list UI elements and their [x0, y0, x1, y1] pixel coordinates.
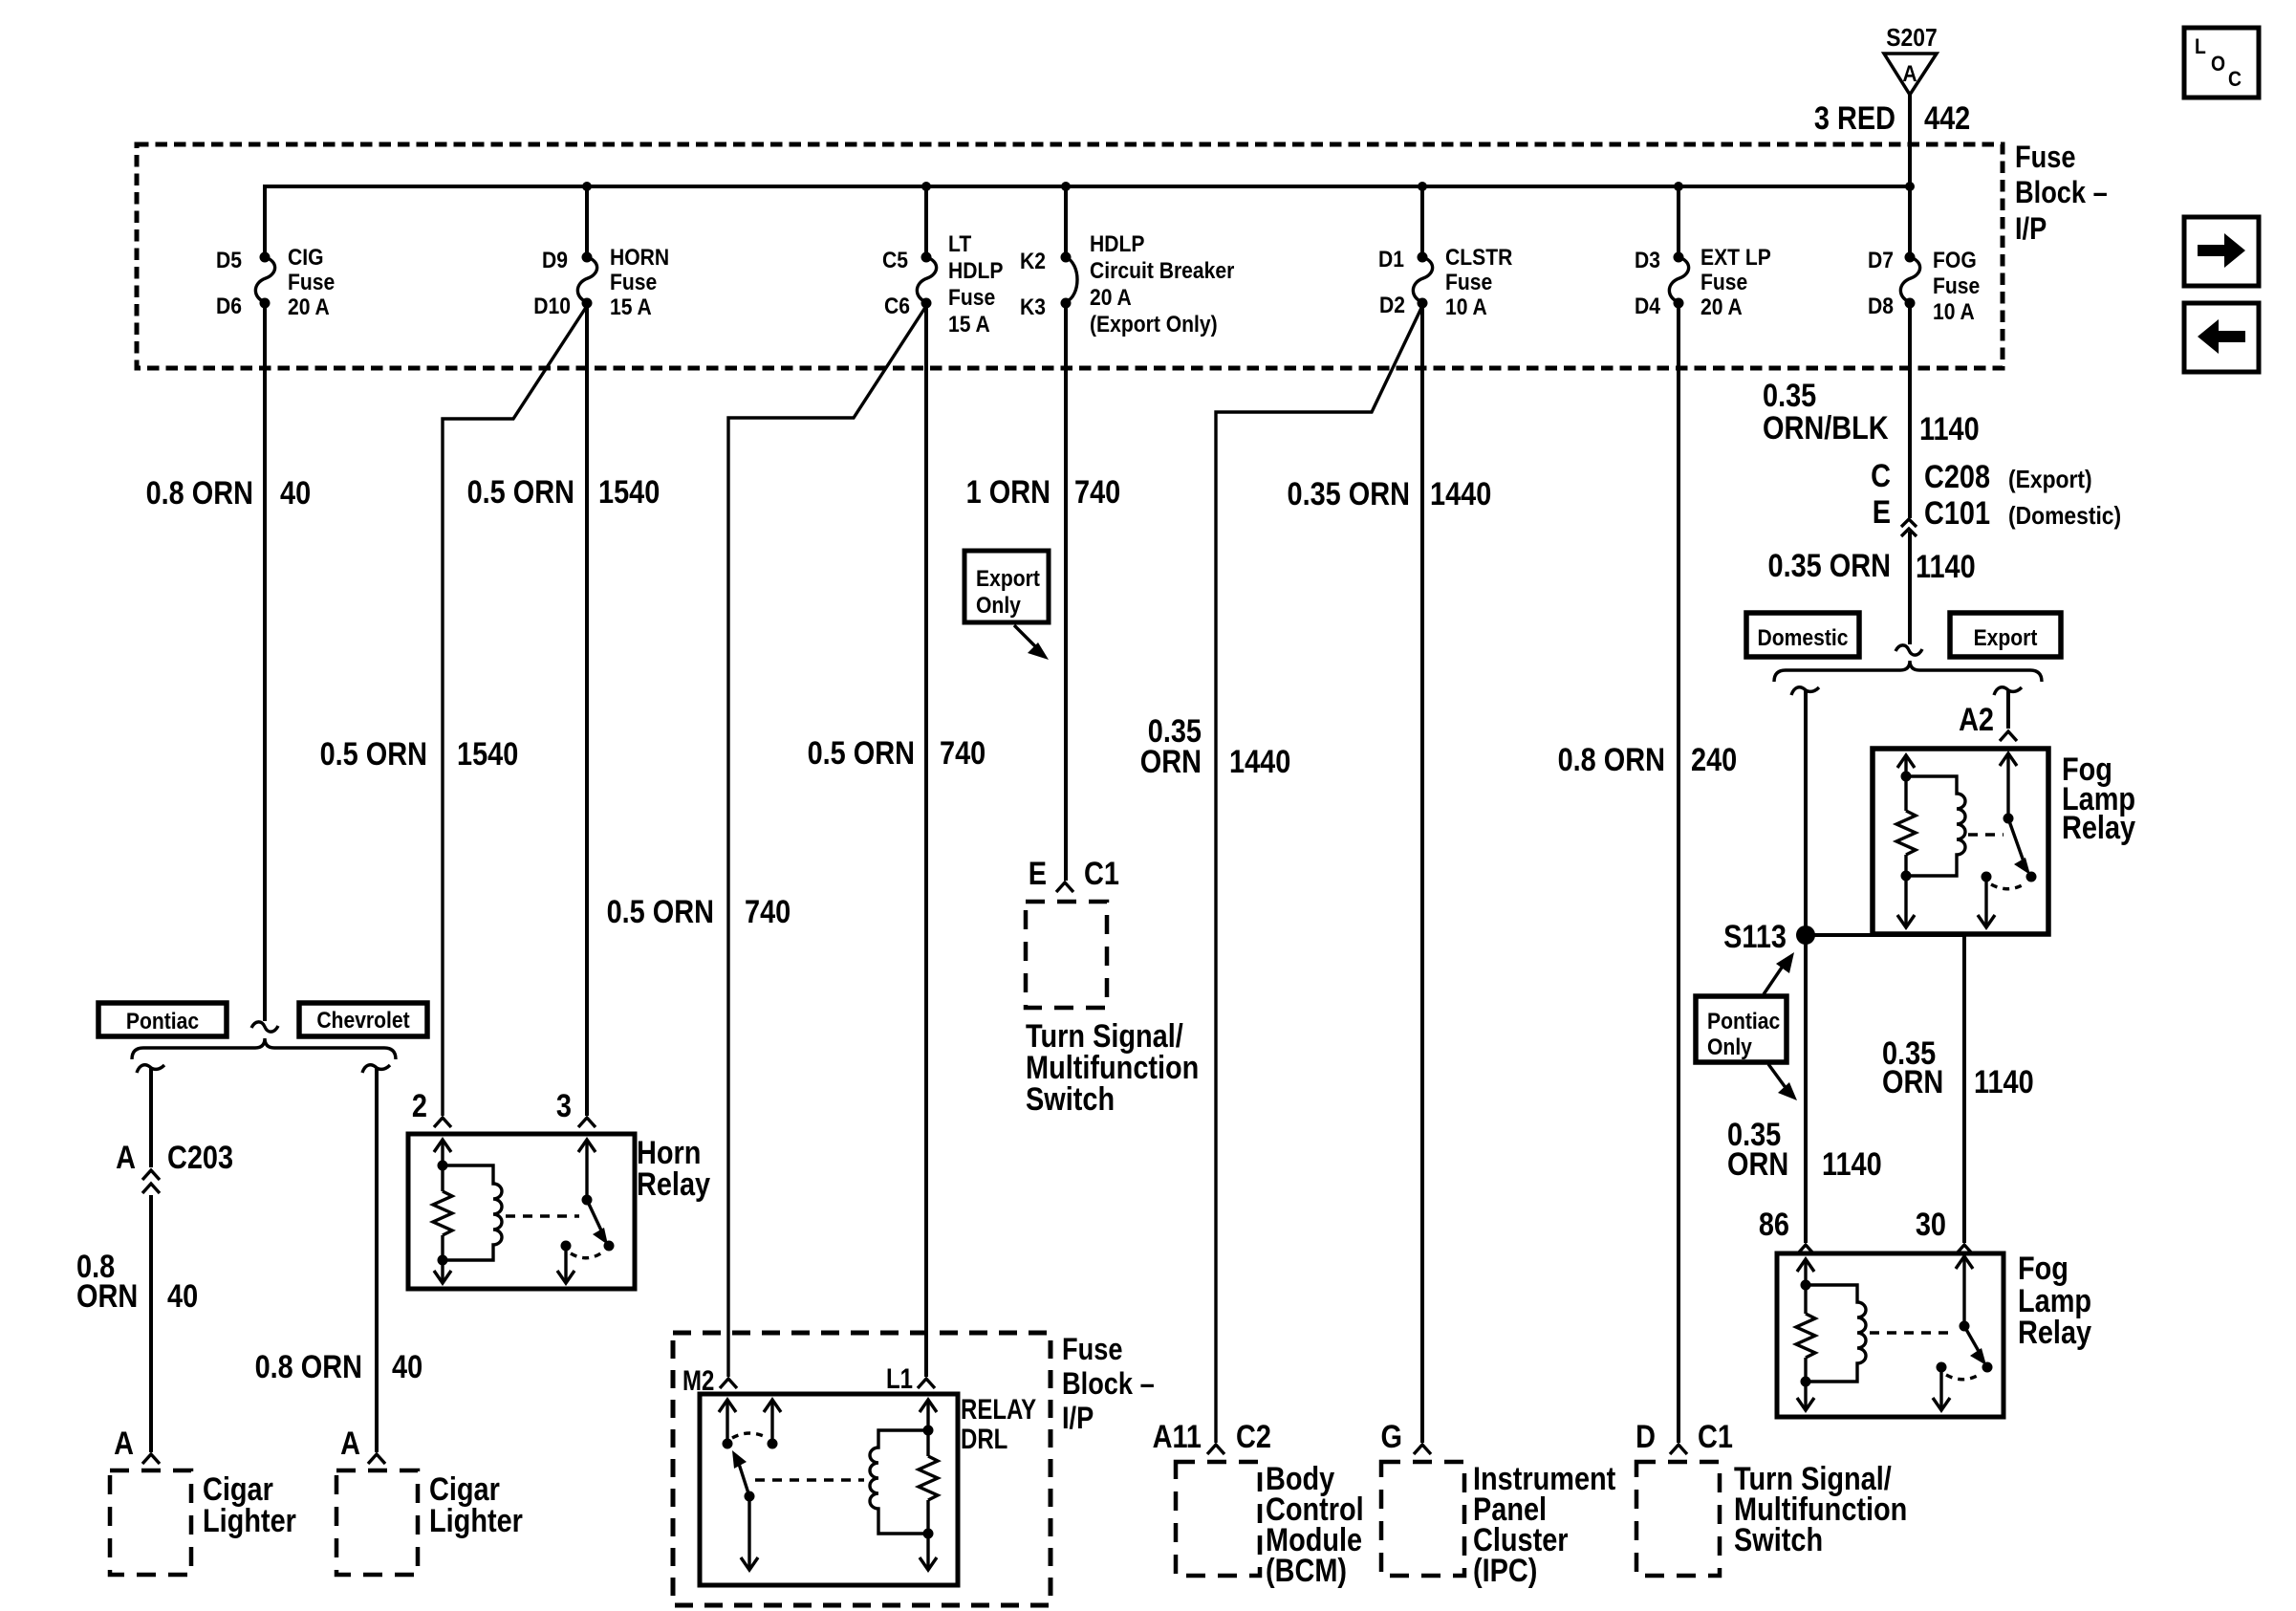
svg-text:Block –: Block – — [2015, 176, 2108, 210]
svg-text:ORN: ORN — [76, 1277, 138, 1315]
svg-text:Fuse: Fuse — [1445, 270, 1492, 295]
fuse LT HDLP 15A C5/C6 — [882, 231, 1003, 337]
svg-text:Export: Export — [976, 566, 1040, 592]
svg-text:L: L — [2195, 35, 2206, 58]
svg-text:Export: Export — [1974, 625, 2038, 651]
svg-text:10 A: 10 A — [1445, 294, 1487, 320]
svg-text:D3: D3 — [1635, 248, 1660, 273]
svg-text:1140: 1140 — [1822, 1145, 1882, 1183]
svg-text:Pontiac: Pontiac — [126, 1009, 199, 1034]
svg-text:0.35 ORN: 0.35 ORN — [1288, 475, 1410, 512]
svg-text:442: 442 — [1924, 99, 1970, 137]
svg-text:I/P: I/P — [2015, 212, 2047, 247]
callout box Domestic — [1746, 613, 1859, 657]
terminal A2 of fog lamp relay — [1959, 701, 2017, 741]
wire 0.5 ORN 1540 from HORN fuse to horn relay 3 — [585, 303, 589, 1116]
svg-text:ORN: ORN — [1882, 1063, 1943, 1100]
wire Chevrolet branch 0.8 ORN 40 — [375, 1068, 379, 1452]
svg-text:Relay: Relay — [2062, 809, 2136, 846]
arrow from Pontiac Only up to S113 — [1764, 952, 1794, 994]
wire stub to LT HDLP fuse — [924, 186, 928, 254]
fuse HORN 15A D9/D10 — [533, 245, 669, 320]
relay: Horn Relay — [408, 1134, 711, 1289]
svg-text:C208: C208 — [1924, 458, 1990, 495]
brace under Domestic/Export split — [1774, 661, 2042, 682]
terminal 86 of fog lamp relay — [1759, 1206, 1814, 1254]
terminal A of cigar lighter (Chevrolet) — [340, 1425, 385, 1464]
svg-text:3 RED: 3 RED — [1814, 99, 1895, 137]
svg-text:A: A — [1902, 61, 1917, 87]
svg-text:C: C — [1871, 457, 1891, 494]
connector A11 C2 at BCM — [1153, 1418, 1271, 1455]
svg-text:C101: C101 — [1924, 494, 1990, 532]
svg-text:Fuse: Fuse — [2015, 141, 2075, 175]
svg-text:D: D — [1635, 1418, 1656, 1455]
svg-text:2: 2 — [412, 1087, 427, 1124]
connector D C1 at turn signal switch — [1635, 1418, 1733, 1455]
svg-text:40: 40 — [167, 1277, 198, 1315]
svg-text:Lighter: Lighter — [203, 1502, 296, 1539]
callout box Export Only — [964, 551, 1049, 622]
svg-text:DRL: DRL — [961, 1422, 1007, 1454]
svg-text:1540: 1540 — [598, 473, 660, 511]
svg-text:C1: C1 — [1084, 855, 1119, 892]
svg-text:C1: C1 — [1698, 1418, 1733, 1455]
wire from S113 to fog relay 30 — [1806, 935, 1964, 1243]
svg-text:(IPC): (IPC) — [1473, 1552, 1537, 1589]
bracket hook left (Pontiac branch) — [137, 1065, 164, 1073]
svg-text:Relay: Relay — [2018, 1314, 2092, 1351]
svg-text:0.5 ORN: 0.5 ORN — [467, 473, 574, 511]
connector C C208 (Export) / E C101 (Domestic) — [1871, 457, 2121, 536]
svg-text:0.5 ORN: 0.5 ORN — [808, 734, 915, 772]
fuse EXT LP 20A D3/D4 — [1635, 245, 1771, 320]
svg-text:L1: L1 — [886, 1361, 913, 1394]
fuse block I/P dashed box — [137, 144, 2003, 368]
svg-text:Circuit Breaker: Circuit Breaker — [1090, 258, 1235, 284]
svg-text:Fuse: Fuse — [610, 270, 657, 295]
wire stub to CLSTR fuse — [1420, 186, 1424, 254]
svg-text:A: A — [114, 1425, 134, 1462]
terminal 2 of horn relay — [412, 1087, 451, 1127]
junction at HDLP breaker — [1061, 182, 1071, 191]
bracket hook right (Chevrolet branch) — [362, 1065, 390, 1073]
svg-text:D1: D1 — [1378, 247, 1404, 272]
svg-text:1440: 1440 — [1229, 743, 1290, 780]
svg-text:(Export): (Export) — [2008, 467, 2092, 494]
svg-text:240: 240 — [1691, 741, 1737, 778]
junction at CLSTR fuse — [1418, 182, 1427, 191]
wire stub to HDLP breaker — [1064, 186, 1068, 254]
svg-text:10 A: 10 A — [1933, 299, 1975, 325]
svg-text:740: 740 — [745, 893, 791, 930]
svg-text:CIG: CIG — [288, 245, 324, 271]
splice S113 — [1723, 918, 1815, 955]
wire: feed bus inside fuse block — [265, 186, 1910, 254]
svg-text:Only: Only — [1707, 1034, 1752, 1060]
svg-text:D2: D2 — [1379, 293, 1405, 318]
svg-text:1140: 1140 — [1974, 1063, 2034, 1100]
svg-text:K2: K2 — [1020, 249, 1046, 274]
svg-text:0.35: 0.35 — [1763, 377, 1816, 414]
svg-text:40: 40 — [392, 1348, 422, 1385]
svg-text:HDLP: HDLP — [1090, 231, 1144, 257]
wire 0.8 ORN 40 from CIG fuse — [263, 303, 267, 1021]
svg-text:FOG: FOG — [1933, 248, 1977, 273]
relay DRL inside fuse block — [700, 1392, 1036, 1585]
svg-text:Fuse: Fuse — [1933, 273, 1980, 299]
svg-text:S113: S113 — [1723, 918, 1787, 955]
brace under Pontiac/Chevrolet split — [132, 1038, 396, 1059]
arrow from Export Only box — [1014, 625, 1049, 660]
component Cigar Lighter (Chevrolet, dashed) — [336, 1470, 523, 1575]
svg-text:Only: Only — [976, 593, 1021, 619]
svg-text:K3: K3 — [1020, 294, 1046, 320]
svg-text:A11: A11 — [1153, 1418, 1202, 1455]
wire 0.8 ORN 240 from EXT LP fuse to turn signal switch — [1677, 303, 1680, 1443]
svg-text:M2: M2 — [682, 1363, 714, 1396]
svg-text:A2: A2 — [1959, 701, 1994, 738]
wire 0.8 ORN 40 from C203 to cigar lighter — [149, 1195, 153, 1452]
svg-text:RELAY: RELAY — [961, 1392, 1036, 1425]
svg-text:0.8 ORN: 0.8 ORN — [255, 1348, 362, 1385]
svg-text:Switch: Switch — [1026, 1080, 1115, 1118]
splice S207 symbol — [1884, 25, 1938, 95]
bracket hook left (Domestic branch) — [1791, 687, 1819, 695]
svg-text:Fuse: Fuse — [948, 285, 995, 311]
svg-text:1140: 1140 — [1916, 548, 1976, 585]
svg-text:Block –: Block – — [1062, 1367, 1155, 1402]
junction at HORN fuse — [582, 182, 592, 191]
svg-text:Fuse: Fuse — [1062, 1333, 1122, 1367]
svg-text:Fuse: Fuse — [1700, 270, 1747, 295]
svg-text:Fog: Fog — [2018, 1250, 2069, 1287]
svg-text:D8: D8 — [1868, 294, 1894, 319]
wire 0.35 ORN/BLK 1140 from FOG fuse — [1908, 303, 1912, 518]
svg-text:0.5 ORN: 0.5 ORN — [607, 893, 714, 930]
LOC legend box — [2184, 28, 2259, 98]
svg-text:C2: C2 — [1236, 1418, 1271, 1455]
svg-text:LT: LT — [948, 231, 971, 257]
svg-text:Chevrolet: Chevrolet — [316, 1008, 410, 1034]
wire stub to HORN fuse — [585, 186, 589, 254]
wire 3 RED 442 from S207 — [1908, 95, 1912, 254]
svg-text:Lighter: Lighter — [429, 1502, 523, 1539]
legend arrow left box — [2184, 303, 2259, 372]
svg-text:A: A — [116, 1139, 136, 1176]
svg-text:0.8 ORN: 0.8 ORN — [1558, 741, 1665, 778]
fuse CLSTR 10A D1/D2 — [1378, 245, 1512, 320]
wire break symbol at Pontiac/Chevrolet split — [251, 1022, 278, 1032]
terminal 30 of fog lamp relay — [1916, 1206, 1973, 1254]
terminal L1 of relay DRL — [886, 1361, 935, 1394]
svg-text:D4: D4 — [1635, 294, 1660, 319]
svg-text:ORN: ORN — [1727, 1145, 1788, 1183]
svg-text:D10: D10 — [533, 294, 571, 319]
svg-text:Domestic: Domestic — [1757, 625, 1848, 651]
svg-text:I/P: I/P — [1062, 1402, 1094, 1436]
svg-text:ORN/BLK: ORN/BLK — [1763, 409, 1889, 446]
svg-text:0.8 ORN: 0.8 ORN — [146, 474, 253, 512]
connector E C1 at turn signal switch — [1029, 855, 1119, 892]
wire Pontiac branch to C203 — [149, 1068, 153, 1167]
svg-text:HDLP: HDLP — [948, 258, 1003, 284]
component Instrument Panel Cluster (dashed) — [1381, 1460, 1616, 1589]
svg-text:S207: S207 — [1886, 25, 1937, 53]
callout box Pontiac Only — [1696, 996, 1787, 1062]
svg-text:C5: C5 — [882, 248, 908, 273]
svg-text:D9: D9 — [542, 248, 568, 273]
callout box Export — [1950, 613, 2061, 657]
legend arrow right box — [2184, 217, 2259, 286]
component Turn Signal/Multifunction Switch (dashed) — [1026, 902, 1199, 1118]
svg-text:ORN: ORN — [1140, 743, 1202, 780]
svg-text:40: 40 — [280, 474, 311, 512]
svg-text:EXT LP: EXT LP — [1700, 245, 1771, 271]
fuse FOG 10A D7/D8 — [1868, 248, 1980, 325]
svg-text:D6: D6 — [216, 294, 242, 319]
junction at EXT LP fuse — [1674, 182, 1683, 191]
svg-text:C6: C6 — [884, 294, 910, 319]
svg-text:O: O — [2211, 53, 2225, 76]
wire Export branch to A2 — [2006, 690, 2010, 729]
svg-text:740: 740 — [1074, 473, 1120, 511]
relay: Fog Lamp Relay (export, upper) — [1873, 749, 2136, 934]
wire 0.5 ORN 740 from LT HDLP fuse to L1 — [924, 303, 928, 1377]
svg-text:1540: 1540 — [457, 735, 518, 773]
wire branch 0.35 ORN 1440 from D2 to BCM — [1216, 306, 1422, 1443]
wire break symbol above split — [1895, 645, 1922, 655]
svg-text:0.5 ORN: 0.5 ORN — [320, 735, 427, 773]
component Body Control Module (dashed) — [1176, 1460, 1364, 1589]
svg-text:86: 86 — [1759, 1206, 1789, 1243]
connector A C203 — [116, 1139, 233, 1193]
svg-text:1140: 1140 — [1919, 410, 1980, 447]
svg-text:740: 740 — [940, 734, 986, 772]
svg-text:15 A: 15 A — [610, 294, 652, 320]
terminal 3 of horn relay — [556, 1087, 596, 1127]
svg-text:C: C — [2228, 68, 2242, 91]
svg-text:20 A: 20 A — [1090, 285, 1132, 311]
callout box Pontiac — [98, 1003, 227, 1036]
svg-text:15 A: 15 A — [948, 312, 990, 337]
svg-text:Relay: Relay — [637, 1165, 711, 1203]
svg-text:30: 30 — [1916, 1206, 1946, 1243]
fuse CIG 20A D5/D6 — [216, 245, 335, 320]
svg-text:G: G — [1381, 1418, 1402, 1455]
wire 0.35 ORN 1440 from CLSTR fuse to IPC — [1420, 303, 1424, 1443]
svg-text:(BCM): (BCM) — [1266, 1552, 1347, 1589]
svg-text:E: E — [1029, 855, 1047, 892]
svg-text:D7: D7 — [1868, 248, 1894, 273]
arrow from Pontiac Only down to wire — [1768, 1064, 1797, 1100]
wire label 0.35 ORN 1140 (Pontiac branch) — [1727, 1116, 1882, 1183]
svg-text:Switch: Switch — [1734, 1521, 1823, 1558]
terminal M2 of relay DRL — [682, 1363, 737, 1396]
circuit breaker HDLP 20A K2/K3 — [1020, 231, 1235, 337]
svg-text:1 ORN: 1 ORN — [966, 473, 1051, 511]
svg-text:HORN: HORN — [610, 245, 669, 271]
relay: Fog Lamp Relay (lower) — [1777, 1250, 2092, 1417]
svg-text:D5: D5 — [216, 248, 242, 273]
svg-text:E: E — [1873, 493, 1891, 531]
svg-text:Pontiac: Pontiac — [1707, 1009, 1780, 1034]
wire Domestic branch down through S113 to relay 86 — [1804, 690, 1808, 1243]
wire branch 0.5 ORN 1540 from D10 to horn relay 2 — [443, 306, 587, 1116]
svg-text:CLSTR: CLSTR — [1445, 245, 1512, 271]
svg-text:20 A: 20 A — [1700, 294, 1743, 320]
wire 0.35 ORN 1140 to Domestic/Export split — [1908, 532, 1912, 644]
svg-text:(Export Only): (Export Only) — [1090, 312, 1218, 337]
junction at LT HDLP fuse — [921, 182, 931, 191]
svg-text:Fuse: Fuse — [288, 270, 335, 295]
junction at FOG fuse — [1905, 182, 1915, 191]
svg-text:3: 3 — [556, 1087, 572, 1124]
svg-text:0.35 ORN: 0.35 ORN — [1768, 547, 1891, 584]
svg-text:A: A — [340, 1425, 360, 1462]
fuse block I/P lower dashed box (RELAY DRL) — [673, 1333, 1155, 1605]
svg-text:C203: C203 — [167, 1139, 233, 1176]
component Turn Signal/Multifunction Switch lower (dashed) — [1636, 1460, 1907, 1576]
wire branch 0.5 ORN 740 from C6 to M2 — [728, 306, 926, 1377]
svg-text:(Domestic): (Domestic) — [2008, 503, 2121, 531]
svg-text:20 A: 20 A — [288, 294, 330, 320]
component Cigar Lighter (Pontiac, dashed) — [110, 1470, 296, 1575]
bracket hook right (Export branch) — [1994, 687, 2022, 695]
terminal A of cigar lighter (Pontiac) — [114, 1425, 160, 1464]
wire 1 ORN 740 from HDLP breaker — [1064, 303, 1068, 881]
svg-text:1440: 1440 — [1430, 475, 1491, 512]
connector G at IPC — [1381, 1418, 1431, 1455]
wire stub to EXT LP fuse — [1677, 186, 1680, 254]
callout box Chevrolet — [299, 1003, 427, 1036]
